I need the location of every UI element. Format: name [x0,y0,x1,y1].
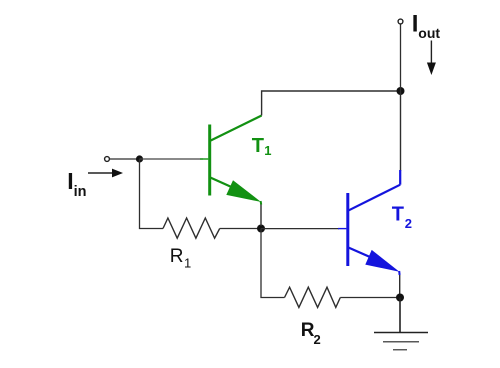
current arrow I_in [88,169,123,178]
ground [374,333,428,350]
wire: node A down to R1 level [140,159,164,229]
wire: R2 to node C [340,297,397,299]
current arrow I_out [427,41,436,76]
svg-text:out: out [418,25,440,41]
T1 collector lead [210,116,262,142]
node B (T1 emitter / T2 base node) [257,225,265,233]
T1 emitter lead [210,177,232,187]
label R1 [170,246,191,271]
wire: node D up to output terminal [400,24,402,91]
wire: node B to T2 base [261,228,339,230]
wire: node A to T1 base [140,158,204,160]
label T2 [392,204,412,231]
svg-text:1: 1 [264,143,271,158]
T2 collector lead [348,185,400,211]
wire: input terminal to node A [110,158,136,160]
T2 base lead [338,228,346,230]
node C (T2 emitter / ground node) [396,294,404,302]
wire: R1 to node B [220,228,258,230]
svg-text:T: T [392,204,404,226]
T1 emitter tip [260,201,263,205]
T1 emitter arrow [226,180,261,202]
label I_out [412,10,441,41]
label T1 [252,135,272,158]
svg-text:T: T [252,135,264,157]
transistor T2 (blue NPN) [338,170,400,275]
T2 emitter arrow [365,250,399,272]
wire: node C down to ground [399,298,401,333]
svg-text:2: 2 [314,332,321,347]
label I_in [67,168,86,200]
wire: T1 collector up to top rail [262,91,401,116]
svg-text:in: in [74,184,87,200]
input terminal (open circle) [105,157,110,162]
wire: node B down to R2 level [261,229,285,298]
T2 emitter tip [398,271,400,275]
T2 emitter lead [348,247,370,257]
node D (output node) [397,87,405,95]
output terminal (open circle) [398,19,403,24]
T1 base lead [200,158,208,160]
label R2 [301,320,321,347]
wire: node D down to T2 collector [400,91,402,171]
transistor T1 (green NPN) [200,116,262,205]
T1 base bar [208,125,211,196]
svg-text:R: R [170,246,184,267]
resistor R2 [285,287,341,307]
wire: T2 emitter tip down to node C [399,275,401,298]
T2 collector corner [399,170,401,185]
resistor R1 [163,218,220,238]
wire: T1 emitter tip down to node B [260,204,262,227]
svg-text:2: 2 [405,216,412,231]
T2 base bar [346,193,349,266]
node A (input node) [136,155,143,162]
svg-text:1: 1 [184,256,191,271]
